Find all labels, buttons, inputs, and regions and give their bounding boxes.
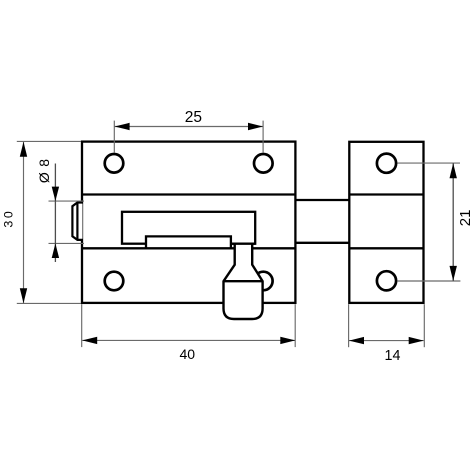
dimension Ø8: line	[54, 164, 56, 263]
screw hole top-right	[254, 154, 273, 173]
keeper hole top	[377, 154, 396, 173]
dimension 21: line	[452, 163, 454, 281]
keeper plate	[349, 142, 423, 303]
dimension 25: extension lines	[113, 121, 115, 153]
knob shoulder line	[224, 280, 263, 282]
handle slot	[146, 236, 231, 249]
dimension 30: line	[23, 142, 25, 303]
svg-text:21: 21	[457, 210, 470, 227]
dimension 30: arrows	[20, 142, 27, 157]
channel bottom line	[82, 247, 235, 249]
dimension Ø8: extension lines	[49, 200, 85, 202]
guide plate bottom edge over stem	[231, 243, 255, 245]
keeper channel top line	[349, 193, 423, 195]
main plate body	[82, 142, 295, 303]
bolt guide plate	[122, 212, 255, 244]
svg-text:14: 14	[385, 348, 401, 364]
screw hole bottom-left	[105, 272, 124, 291]
screw hole bottom-right	[254, 272, 273, 291]
dimension 21: arrows	[450, 163, 457, 178]
dimension 21: extension lines	[398, 162, 461, 164]
knob outline	[224, 243, 263, 319]
dimension 14: line	[349, 340, 424, 342]
knob fill	[224, 244, 263, 319]
dimension 25: line	[115, 126, 263, 128]
dimension Ø8: arrows	[52, 187, 59, 202]
svg-text:25: 25	[185, 109, 202, 126]
keeper hole bottom	[377, 271, 396, 290]
svg-text:30: 30	[1, 209, 15, 228]
dimension 14: arrows	[349, 337, 364, 344]
keeper channel bottom line	[349, 247, 423, 249]
bolt shaft (right)	[295, 199, 349, 201]
dimension 40: line	[82, 339, 295, 341]
dimension 14: extension lines	[348, 304, 350, 347]
dimension 40: extension lines	[81, 304, 83, 347]
dimension 40: arrows	[82, 337, 97, 344]
svg-text:40: 40	[180, 346, 196, 362]
svg-text:Ø 8: Ø 8	[36, 158, 52, 183]
dimension 25: arrows	[115, 123, 130, 130]
channel top line	[82, 193, 295, 195]
screw hole top-left	[105, 154, 124, 173]
bolt end cap (left)	[72, 203, 82, 240]
dimension 30: extension lines	[17, 140, 81, 142]
